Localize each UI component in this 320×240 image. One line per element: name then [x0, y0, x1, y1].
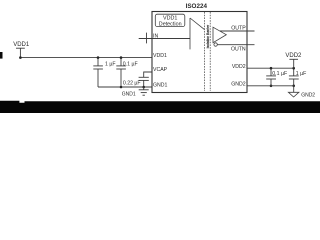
wire GND2 rail [247, 85, 294, 87]
wire OUTP [220, 30, 255, 32]
svg-text:0.1 µF: 0.1 µF [123, 61, 138, 67]
ground GND2 triangle [288, 86, 299, 97]
junction dot C4 top [270, 67, 273, 70]
IC U1 ISO224 box [152, 12, 247, 93]
junction dot C5 top [292, 67, 295, 70]
svg-text:GND2: GND2 [301, 92, 315, 98]
inverting bubble [214, 43, 217, 46]
svg-text:Isolation Barrier: Isolation Barrier [206, 24, 210, 48]
svg-text:ISO224: ISO224 [186, 3, 208, 10]
capacitor C4 0.1uF [266, 68, 276, 86]
junction dot C3 bottom [142, 86, 145, 89]
svg-text:0.22 µF: 0.22 µF [123, 80, 141, 86]
svg-text:GND1: GND1 [122, 92, 136, 98]
black caption bar [0, 101, 320, 113]
svg-text:GND2: GND2 [231, 81, 246, 87]
wire OUTN [217, 44, 254, 46]
capacitor C2 0.1uF [116, 58, 126, 87]
svg-text:VDD2: VDD2 [232, 64, 246, 70]
isolation barrier dashed line left [204, 12, 206, 91]
svg-text:OUTN: OUTN [231, 46, 246, 52]
svg-text:VDD1: VDD1 [153, 53, 167, 59]
wire VDD1 rail [20, 57, 152, 59]
svg-text:Detection: Detection [159, 22, 182, 28]
svg-text:1 µF: 1 µF [105, 61, 115, 67]
wire VDD2 rail [247, 67, 294, 69]
junction dot C4 bottom [270, 85, 273, 88]
svg-text:IN: IN [153, 33, 158, 39]
wire IN stub [139, 38, 190, 40]
svg-text:GND1: GND1 [153, 83, 168, 89]
svg-text:1 µF: 1 µF [296, 71, 306, 77]
junction dot C1 top [97, 56, 100, 59]
svg-text:VCAP: VCAP [153, 67, 168, 73]
supply VDD1 [16, 48, 25, 57]
junction dot C2 bottom [120, 86, 123, 89]
capacitor C5 1uF [289, 68, 299, 86]
ground GND1 [139, 87, 149, 95]
svg-text:0.1 µF: 0.1 µF [272, 71, 287, 77]
capacitor C3 0.22uF [139, 72, 152, 87]
svg-text:VDD1: VDD1 [13, 42, 30, 48]
modulator amp top slant [190, 18, 205, 30]
output amp [213, 27, 226, 43]
input terminal tick [146, 33, 148, 44]
junction dot C5 bottom [292, 85, 295, 88]
capacitor C1 1uF [93, 58, 103, 87]
VDD1 detection block [155, 14, 185, 26]
junction dot C2 top [120, 56, 123, 59]
supply VDD2 [289, 59, 298, 68]
wire GND1 rail [98, 86, 152, 88]
modulator amp left edge [189, 18, 191, 49]
isolation barrier dashed line right [209, 12, 211, 91]
scan mark left edge [0, 52, 3, 59]
svg-text:VDD2: VDD2 [285, 53, 302, 59]
junction dot VDD1 tee [19, 56, 22, 59]
svg-text:OUTP: OUTP [231, 25, 246, 31]
